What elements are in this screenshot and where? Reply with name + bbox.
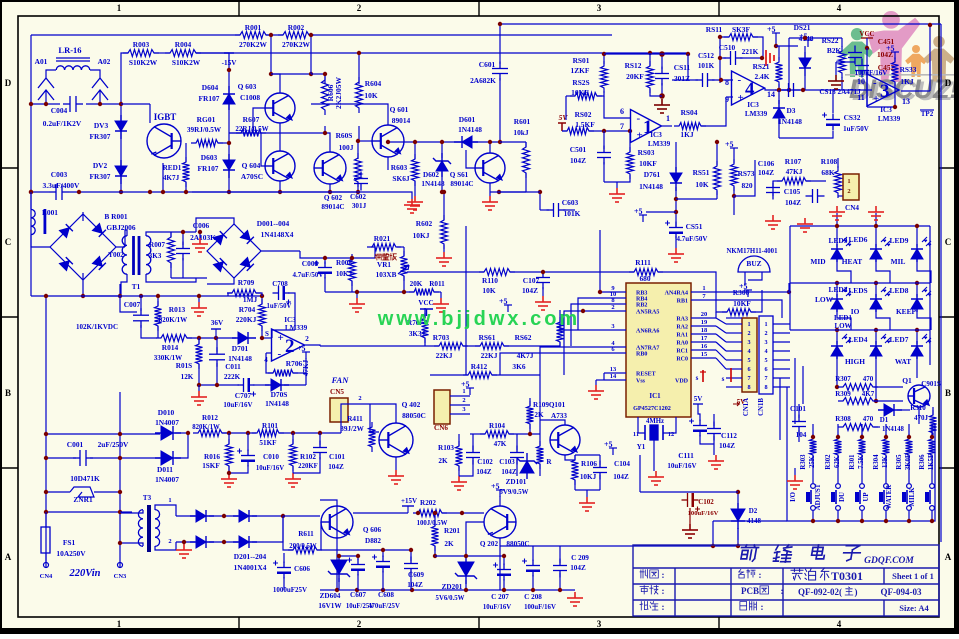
resistor R201 xyxy=(432,521,439,551)
svg-text:R601: R601 xyxy=(514,117,531,126)
wire rail386 xyxy=(199,384,239,386)
svg-text:4: 4 xyxy=(837,3,842,13)
wire op4 out xyxy=(765,88,789,90)
resistor R110 xyxy=(479,269,515,276)
svg-text:R002: R002 xyxy=(288,23,305,32)
wire d705 r xyxy=(284,384,306,386)
wire c511 top xyxy=(661,54,663,69)
transistor Q101 xyxy=(550,425,580,455)
junction xyxy=(356,554,360,558)
wire r103 bot xyxy=(458,466,460,476)
wire cn1b pin 6 xyxy=(773,368,790,370)
wire +5 to cs51 xyxy=(646,211,676,213)
wire r306 r xyxy=(751,290,762,312)
wire r202 r xyxy=(442,512,484,514)
wire cn1a p1 xyxy=(726,317,742,319)
svg-text:C102: C102 xyxy=(698,498,714,506)
diode D761 xyxy=(670,167,682,191)
junction xyxy=(416,511,420,515)
svg-text:1uF/50V: 1uF/50V xyxy=(267,303,292,310)
wire q601 collector xyxy=(311,104,388,125)
ground cs51 xyxy=(668,248,684,262)
svg-text:+5: +5 xyxy=(604,440,613,449)
svg-text:C006: C006 xyxy=(193,221,210,230)
svg-text:R: R xyxy=(546,458,552,466)
svg-text:C111: C111 xyxy=(678,451,694,460)
wire to c512 xyxy=(687,54,689,80)
led arrows LED r1c2 xyxy=(881,237,890,246)
svg-text::: : xyxy=(761,602,764,612)
wire q402 collector xyxy=(370,404,396,423)
svg-text:R301: R301 xyxy=(849,454,856,470)
wire row d010 xyxy=(46,433,160,435)
svg-text:R102: R102 xyxy=(300,453,316,461)
svg-text:s: s xyxy=(722,375,725,383)
junction xyxy=(528,432,532,436)
svg-text:1N4148: 1N4148 xyxy=(778,117,802,126)
svg-text:470: 470 xyxy=(863,415,874,423)
junction xyxy=(433,554,437,558)
wire led col 3 seg4 xyxy=(916,356,918,365)
wire r412 r xyxy=(492,374,540,376)
junction xyxy=(291,431,295,435)
diode LED r2c2 xyxy=(870,294,882,312)
wire d202 out xyxy=(252,515,283,517)
svg-text:3: 3 xyxy=(597,619,602,629)
wire ic1 pin 14 xyxy=(604,379,626,381)
resistor R003 xyxy=(123,50,159,57)
+5 supply rs73 xyxy=(725,140,738,155)
wire led col 2 seg2 xyxy=(875,283,877,297)
svg-text:R307: R307 xyxy=(835,375,851,383)
svg-text:T0301: T0301 xyxy=(831,569,863,583)
svg-text:C512: C512 xyxy=(698,52,714,60)
wire cn1b pin 4 xyxy=(773,350,790,352)
svg-text:6: 6 xyxy=(764,366,767,373)
wire zd604 bot xyxy=(338,578,340,590)
wire gnd t3 xyxy=(183,542,185,544)
label 日期 xyxy=(740,602,757,611)
svg-text:88050C: 88050C xyxy=(402,411,426,420)
zone tick right xyxy=(939,316,956,318)
wire br001 top xyxy=(82,212,84,221)
svg-text:1uF/50V: 1uF/50V xyxy=(843,125,869,133)
svg-text:104Z: 104Z xyxy=(570,156,586,165)
resistor RS22 xyxy=(839,46,846,78)
svg-text::: : xyxy=(759,570,762,580)
junction xyxy=(602,52,606,56)
junction xyxy=(44,432,48,436)
wire comparator rail xyxy=(775,89,872,91)
wire ic1 pin 15 xyxy=(691,357,716,359)
wire ra2 to cn1a xyxy=(716,334,726,342)
wire led row2 rail xyxy=(790,282,930,284)
wire c011 bot xyxy=(216,363,218,385)
svg-text:2: 2 xyxy=(358,395,361,402)
junction xyxy=(648,51,652,55)
diode DV3 xyxy=(115,115,127,139)
wire c104 bot xyxy=(599,475,601,490)
capacitor C207 xyxy=(493,563,511,581)
junction xyxy=(186,431,190,435)
junction xyxy=(410,588,414,592)
wire long vertical 466 xyxy=(465,226,467,375)
wire ds21 bot xyxy=(804,76,806,90)
wire xyxy=(31,34,240,36)
svg-text:CS51: CS51 xyxy=(686,222,703,231)
wire op4 in+ drop xyxy=(725,97,727,112)
svg-text:R306: R306 xyxy=(919,454,926,470)
svg-text:4.7uF/50V: 4.7uF/50V xyxy=(677,235,708,243)
resistor R002 xyxy=(278,32,314,39)
wire fb right xyxy=(305,358,307,385)
bridge D001-004 outline xyxy=(207,224,261,278)
junction xyxy=(835,224,839,228)
junction xyxy=(44,456,48,460)
svg-text:39J/2W: 39J/2W xyxy=(340,425,364,433)
wire c101 bot xyxy=(293,457,320,473)
wire r016 bot xyxy=(228,466,230,473)
wire r602 bot xyxy=(443,245,445,252)
wire r108 top xyxy=(837,158,839,168)
wire buz left xyxy=(744,272,746,285)
wire q606 base drop xyxy=(320,522,322,550)
junction xyxy=(440,140,444,144)
svg-text:+5: +5 xyxy=(767,25,776,34)
wire c707 r xyxy=(253,384,269,386)
svg-text:12: 12 xyxy=(668,431,675,438)
svg-text:CN6: CN6 xyxy=(434,424,448,432)
wire r103 top xyxy=(458,434,460,446)
svg-text:CN1B: CN1B xyxy=(758,398,765,416)
zone tick bottom xyxy=(478,617,480,630)
svg-text:S10K2W: S10K2W xyxy=(129,58,158,67)
wire key col 0 top xyxy=(812,424,814,439)
wire xyxy=(525,142,527,147)
ground flag red xyxy=(766,50,774,66)
wire ic1 pin 16 xyxy=(691,349,716,351)
wire r107 l xyxy=(773,180,782,182)
junction xyxy=(774,44,778,48)
svg-text:301J: 301J xyxy=(352,202,367,210)
wire cn1a pin 8 xyxy=(726,386,742,388)
label 批准 xyxy=(640,602,658,611)
ground r011 xyxy=(433,298,449,312)
svg-text:R108: R108 xyxy=(821,157,838,166)
wire cn1a pin 1 xyxy=(726,323,742,325)
transistor Q202 xyxy=(484,506,516,538)
transistor QS61 xyxy=(475,153,505,183)
svg-text:R004: R004 xyxy=(175,40,192,49)
svg-text:2K: 2K xyxy=(438,457,448,465)
ground t3 sec xyxy=(176,544,192,558)
wire d2 top xyxy=(737,492,739,508)
junction xyxy=(836,519,840,523)
wire led col 1 seg3 xyxy=(836,330,838,344)
wire led col 1 seg1 xyxy=(836,226,838,247)
svg-text:20KF: 20KF xyxy=(626,72,644,81)
resistor RED1 xyxy=(183,157,190,187)
svg-text:LOW: LOW xyxy=(834,322,851,330)
resistor R703 xyxy=(434,343,468,350)
junction xyxy=(328,190,332,194)
wire mains right vert xyxy=(119,392,121,568)
diode D1 xyxy=(878,404,902,416)
inductor LR-16 coil xyxy=(56,66,90,70)
wire cn1a pin stub xyxy=(715,312,717,318)
wire op2 out xyxy=(305,345,320,346)
wire q606 vert xyxy=(336,506,338,590)
wire led row3 rail xyxy=(790,329,930,331)
svg-text:AN6RA6: AN6RA6 xyxy=(636,329,659,335)
wire r102 top xyxy=(292,433,294,444)
svg-text:PCB: PCB xyxy=(741,586,759,596)
junction xyxy=(460,511,464,515)
svg-text:5V: 5V xyxy=(559,113,569,122)
transistor Q602 xyxy=(314,152,346,184)
junction xyxy=(44,102,48,106)
led arrows LED r1c1 xyxy=(842,237,851,246)
wire keypad box xyxy=(787,424,935,521)
junction xyxy=(498,140,502,144)
wire d761 bot xyxy=(675,187,677,227)
wire bundle v1 xyxy=(779,378,781,440)
wire ds21 left rail xyxy=(788,38,790,90)
wire q601 emitter xyxy=(387,157,389,170)
svg-text:C001: C001 xyxy=(67,440,84,449)
svg-text:D: D xyxy=(5,78,12,88)
junction xyxy=(602,129,606,133)
title calligraphy 前 xyxy=(739,545,759,561)
capacitor C511 xyxy=(655,67,669,86)
+5 near cs51 xyxy=(634,207,647,222)
junction big xyxy=(659,51,665,57)
svg-text:T002: T002 xyxy=(108,251,124,259)
wire key col 1 mid xyxy=(837,455,839,483)
wire key col 1 top xyxy=(837,424,839,439)
svg-text:C103: C103 xyxy=(499,458,515,466)
5V arrow pin7 xyxy=(730,368,732,382)
wire rs61 l xyxy=(463,345,480,347)
svg-text:10KJ: 10KJ xyxy=(336,270,353,278)
wire vss gnd xyxy=(596,379,604,381)
fuse FS1 xyxy=(41,527,50,553)
capacitor C107 xyxy=(536,271,550,290)
wire bot rail vr1 xyxy=(325,291,375,293)
title calligraphy 电 xyxy=(811,545,826,559)
wire an6 run xyxy=(560,322,604,330)
wire r104 r xyxy=(509,433,540,435)
junction xyxy=(227,68,231,72)
capacitor C608 xyxy=(372,555,390,573)
junction xyxy=(222,514,226,518)
wire r106c104 bot rail xyxy=(575,489,600,491)
wire c006 gnd rail xyxy=(171,277,207,279)
wire xyxy=(357,141,359,159)
wire t3 sec bot xyxy=(155,542,176,550)
junction xyxy=(874,328,878,332)
junction xyxy=(893,105,897,109)
svg-text:680: 680 xyxy=(639,274,650,283)
wire br001 right xyxy=(116,246,125,248)
junction xyxy=(915,328,919,332)
wire cn1b pin 3 xyxy=(773,341,790,343)
wire gnd c501 stub xyxy=(616,182,618,188)
logo figure pink xyxy=(867,11,921,82)
arrester A02 xyxy=(92,78,108,100)
svg-text:R021: R021 xyxy=(374,234,391,243)
svg-text:C1008: C1008 xyxy=(240,93,260,102)
wire y1 gnd xyxy=(653,440,655,471)
wire q602 collector xyxy=(325,133,330,152)
svg-text:470J: 470J xyxy=(914,414,929,422)
wire rs12 to gnd node xyxy=(650,89,662,96)
svg-text:51KF: 51KF xyxy=(259,439,277,447)
led row box1 xyxy=(0,239,1,241)
ground c107 xyxy=(535,296,551,310)
svg-text:R201: R201 xyxy=(444,527,460,535)
svg-text:-: - xyxy=(278,348,282,360)
wire ic1 pin 13 xyxy=(604,372,626,374)
resistor R603 xyxy=(412,154,419,186)
zone tick bottom xyxy=(718,617,720,630)
capacitor C003 xyxy=(49,184,69,200)
wire c011 top xyxy=(216,338,218,352)
wire c207 bot xyxy=(503,579,505,590)
svg-text:C510: C510 xyxy=(719,43,736,52)
svg-text:LEDS: LEDS xyxy=(848,286,867,295)
diode DS21 xyxy=(799,52,811,76)
junction xyxy=(335,588,339,592)
led arrows LED r3c3 xyxy=(922,334,931,343)
svg-text:IGBT: IGBT xyxy=(154,112,177,122)
svg-text:ZNR1: ZNR1 xyxy=(73,495,93,504)
wire r503 bottom xyxy=(604,175,630,182)
wire rs51 bot xyxy=(716,191,718,199)
wire cn1b pin 1 xyxy=(773,323,790,325)
svg-text:BUZ: BUZ xyxy=(746,259,761,268)
svg-text:RS11: RS11 xyxy=(706,25,723,34)
svg-text:Q 202: Q 202 xyxy=(480,540,499,548)
svg-text:VCC: VCC xyxy=(418,299,433,307)
capacitor C512 xyxy=(696,73,715,87)
wire br001 bot xyxy=(82,273,84,296)
zone tick right xyxy=(939,467,956,469)
+5 c104 xyxy=(604,440,617,455)
inductor core L001 xyxy=(44,209,47,234)
resistor R303 key xyxy=(883,434,890,460)
svg-text:s: s xyxy=(696,374,699,382)
svg-text:820: 820 xyxy=(741,181,752,190)
junction xyxy=(222,540,226,544)
resistor R012 xyxy=(193,430,227,437)
svg-text:RS73: RS73 xyxy=(738,169,755,178)
wire led col 1 seg2 xyxy=(836,283,838,297)
wire ra0 to cn1a xyxy=(716,318,726,324)
junction xyxy=(119,102,123,106)
wire r007 bot xyxy=(170,263,172,278)
resistor R107 xyxy=(777,178,811,185)
junction xyxy=(227,141,231,145)
capacitor C708 xyxy=(273,286,292,305)
svg-text:10A250V: 10A250V xyxy=(56,549,86,558)
diode D601 xyxy=(454,136,478,148)
junction xyxy=(442,190,446,194)
capacitor C101k xyxy=(792,415,806,434)
resistor R309 xyxy=(838,398,878,405)
junction xyxy=(711,544,715,548)
svg-text:5V: 5V xyxy=(694,395,703,403)
36V supply bar xyxy=(211,328,221,330)
label 审核 xyxy=(640,586,658,595)
svg-text:RS02: RS02 xyxy=(575,110,592,119)
+15V supply xyxy=(224,52,234,54)
wire xyxy=(310,35,312,74)
wire c101k bot xyxy=(798,430,800,442)
ground c112 xyxy=(708,455,724,469)
junction xyxy=(355,588,359,592)
svg-text:5: 5 xyxy=(747,357,750,364)
+5 cn6 xyxy=(461,380,474,395)
svg-text:AN5RA5: AN5RA5 xyxy=(636,310,659,316)
wire q603 collector xyxy=(271,74,280,93)
svg-text:2: 2 xyxy=(764,330,767,337)
capacitor C603 xyxy=(547,203,566,217)
wire c101 top xyxy=(319,433,321,445)
svg-text:D761: D761 xyxy=(644,170,661,179)
wire c451 xyxy=(836,61,855,63)
junction xyxy=(874,224,878,228)
svg-text:C707: C707 xyxy=(235,391,252,400)
junction xyxy=(674,197,678,201)
resistor R004 xyxy=(165,50,201,57)
capacitor C102m xyxy=(682,493,701,512)
resistor R013 xyxy=(155,301,162,331)
svg-text:8: 8 xyxy=(725,78,729,87)
svg-text:LM339: LM339 xyxy=(285,324,308,332)
svg-text:1: 1 xyxy=(747,321,750,328)
capacitor C001 xyxy=(73,450,93,466)
wire xyxy=(271,73,311,75)
buzzer BUZ xyxy=(738,256,770,272)
wire rb2 run xyxy=(571,304,604,346)
wire d761 top xyxy=(675,142,677,171)
wire led col 2 seg3 xyxy=(875,330,877,344)
wire igbt collector xyxy=(149,104,151,123)
resistor R707 xyxy=(422,313,429,343)
svg-text:C602: C602 xyxy=(350,193,366,201)
svg-text:200/0.5W: 200/0.5W xyxy=(289,543,317,550)
switch DU xyxy=(855,484,864,511)
wire xyxy=(604,53,688,55)
wire led col 1 jog2 xyxy=(837,309,851,330)
svg-text:2: 2 xyxy=(611,304,614,311)
wire row c001 l xyxy=(46,457,76,459)
wire c607 top xyxy=(357,556,359,560)
svg-text:LOW: LOW xyxy=(815,295,834,304)
wire c511 bot xyxy=(661,83,663,96)
wire led col 3 seg2 xyxy=(916,283,918,297)
svg-text:5: 5 xyxy=(764,357,767,364)
wire left drop xyxy=(30,192,32,296)
svg-text:R013: R013 xyxy=(169,305,186,314)
resistor R101 xyxy=(252,430,284,437)
svg-text:10K: 10K xyxy=(364,91,377,100)
+5 buz xyxy=(739,282,752,297)
svg-text:Q S61: Q S61 xyxy=(450,171,469,179)
wire c603 left xyxy=(540,209,549,211)
inductor T3 secondary xyxy=(155,510,160,547)
